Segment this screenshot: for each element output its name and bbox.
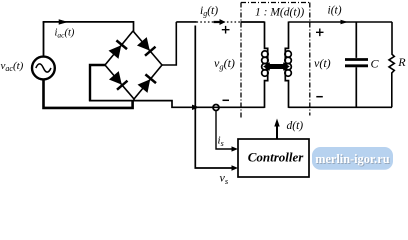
svg-text:vg(t): vg(t) [214,56,235,72]
svg-text:Controller: Controller [248,150,305,165]
wire top rail right [289,21,393,23]
diode D4 bottom-right (B to R) [138,74,156,92]
transformer primary winding [262,22,269,108]
wire bottom rail left [89,101,242,108]
svg-text:vs: vs [220,171,229,187]
diode D1 top-left (L to T) [109,40,127,58]
wire top rail inside box [241,21,265,23]
wire bridge right vertex up [162,22,176,65]
label + (v) [316,29,324,37]
svg-text:i(t): i(t) [328,5,342,17]
v_s sense vertical wire [195,26,232,169]
capacitor C branch [345,22,368,107]
svg-text:merlin-igor.ru: merlin-igor.ru [315,152,390,166]
svg-text:R: R [397,55,406,69]
label minus (vg) [223,99,230,101]
svg-text:C: C [371,56,380,70]
wire bridge bottom stub [133,98,135,101]
label + (vg) [222,26,230,34]
svg-text:ig(t): ig(t) [200,5,218,18]
wire top rail solid segment [176,21,196,23]
watermark pill merlin-igor.ru [312,147,393,170]
svg-text:1 : M(d(t)): 1 : M(d(t)) [255,7,304,19]
wire bottom rail into box [242,106,265,108]
label minus (v) [316,96,323,98]
transformer secondary winding [285,22,292,108]
svg-text:d(t): d(t) [287,120,304,132]
i_s sense wire [216,111,233,149]
arrow v_s into controller [232,165,239,170]
svg-text:is: is [218,135,224,148]
node circle on bottom rail [213,105,219,111]
arrow i_s into controller [232,146,239,151]
controller box [238,139,309,177]
wire top rail dotted segment [197,21,241,23]
wire bracket from left vertex (thick vertical) [90,65,106,101]
dashed box top border [241,2,310,4]
dashed box right border [309,3,311,116]
svg-text:vac(t): vac(t) [1,60,24,73]
diode D2 top-right (T to R) [138,38,156,56]
bridge diamond edges [105,31,162,99]
resistor R branch (right side) [389,22,394,107]
wire source top to rail [43,22,45,57]
svg-text:iac(t): iac(t) [55,28,75,40]
diode D3 bottom-left (L to B) [110,72,128,90]
wire top-left rail [43,22,134,32]
transformer variable-ratio arrow bar [263,62,290,70]
svg-text:v(t): v(t) [314,56,331,70]
arrow d(t) from controller up [274,119,279,140]
arrow i_g [214,19,226,25]
dashed box left border [240,3,242,119]
wire bottom rail out of box right [289,106,393,108]
arrowhead on bottom rail at crossing [192,105,200,110]
ac source Vac [32,57,55,80]
arrow i(t) [341,20,349,25]
wire ac return (thick) [44,80,133,108]
arrow i_ac [59,20,67,25]
